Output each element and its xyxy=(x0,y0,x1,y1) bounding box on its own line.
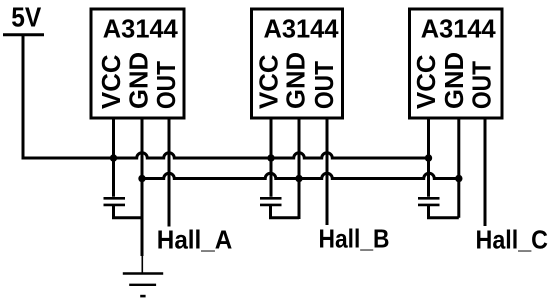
svg-text:VCC: VCC xyxy=(413,55,441,110)
svg-text:OUT: OUT xyxy=(469,61,497,109)
sensor U2 A3144 box xyxy=(252,9,343,118)
junction dot U3 VCC on 5V rail xyxy=(425,154,432,161)
svg-text:5V: 5V xyxy=(11,1,42,32)
wire C2 bottom to GND net xyxy=(271,205,300,218)
svg-text:GND: GND xyxy=(283,52,311,109)
power 5V bar xyxy=(3,33,44,36)
wire U3 OUT pin xyxy=(484,119,487,227)
wire GND down to ground symbol xyxy=(141,179,144,257)
capacitor C3 top plate xyxy=(418,197,440,200)
wire 5V vertical xyxy=(22,35,25,158)
svg-text:Hall_B: Hall_B xyxy=(319,224,390,254)
capacitor C1 top plate xyxy=(104,197,126,200)
ground lead xyxy=(141,255,143,273)
svg-text:GND: GND xyxy=(441,52,469,109)
wire U1 OUT pin xyxy=(168,119,171,227)
svg-text:Hall_A: Hall_A xyxy=(157,224,233,254)
sensor U1 A3144 box xyxy=(91,9,184,118)
wire U1 VCC pin to rail and C1 xyxy=(112,119,115,197)
junction dot U2 VCC on 5V rail xyxy=(267,154,274,161)
svg-text:VCC: VCC xyxy=(98,55,126,110)
wire U2 VCC pin to rail and C2 xyxy=(270,119,273,197)
svg-text:A3144: A3144 xyxy=(103,16,179,44)
sensor U3 A3144 box xyxy=(410,9,503,118)
svg-text:GND: GND xyxy=(126,52,154,109)
wire U3 GND pin xyxy=(457,119,460,218)
wire C3 bottom to GND net xyxy=(429,205,459,218)
capacitor C2 bottom plate xyxy=(260,204,282,207)
ground bar 2 xyxy=(129,284,156,286)
junction dot U1 GND on GND rail xyxy=(138,175,145,182)
wire GND rail (second horizontal bus with hops) xyxy=(142,173,459,178)
svg-text:Hall_C: Hall_C xyxy=(476,224,549,254)
capacitor C1 bottom plate xyxy=(104,204,126,207)
wire 5V rail (top horizontal bus with hops) xyxy=(22,153,429,158)
svg-text:A3144: A3144 xyxy=(264,16,340,44)
ground bar 3 xyxy=(140,295,145,298)
wire U2 OUT pin xyxy=(326,119,329,226)
wire U1 GND pin xyxy=(141,119,144,179)
ground bar 1 xyxy=(123,272,163,274)
junction dot U2 GND on GND rail xyxy=(295,175,302,182)
junction dot U1 VCC on 5V rail xyxy=(110,154,117,161)
capacitor C2 top plate xyxy=(260,197,282,200)
svg-text:OUT: OUT xyxy=(311,61,339,109)
svg-text:A3144: A3144 xyxy=(421,16,497,44)
wire U2 GND pin xyxy=(298,119,301,220)
wire C1 bottom to GND net xyxy=(114,205,143,218)
svg-text:OUT: OUT xyxy=(153,61,181,109)
wire U3 VCC pin to rail and C3 xyxy=(427,119,430,197)
junction dot U3 GND on GND rail xyxy=(455,175,462,182)
capacitor C3 bottom plate xyxy=(418,204,440,207)
svg-text:VCC: VCC xyxy=(255,55,283,110)
